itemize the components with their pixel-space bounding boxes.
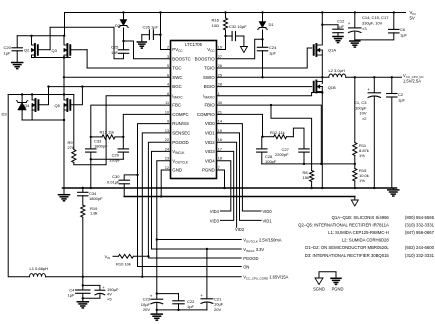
capacitor C21 10uF 20V [206,248,208,250]
svg-text:26: 26 [218,64,222,68]
svg-text:1800pF: 1800pF [94,144,108,149]
svg-text:16: 16 [218,138,222,142]
svg-text:BOOSTC: BOOSTC [172,56,191,61]
svg-text:20V: 20V [143,307,150,312]
svg-text:BOOSTIO: BOOSTIO [195,56,216,61]
svg-text:BGIO: BGIO [204,84,216,89]
svg-text:21: 21 [218,110,222,114]
capacitor C12 1uF [322,24,338,26]
svg-text:6: 6 [167,73,169,77]
capacitor C6 1uF [393,11,395,13]
svg-text:R16: R16 [212,18,220,23]
ground hollow under C32 [240,47,247,53]
capacitor C33 1800pF [86,148,96,150]
svg-text:RUN/SS: RUN/SS [172,121,189,126]
svg-text:1µF: 1µF [269,51,277,56]
svg-text:VID4: VID4 [210,209,220,214]
svg-text:1µF: 1µF [400,33,408,38]
svg-text:D2: D2 [115,23,121,28]
svg-text:7: 7 [218,166,220,170]
svg-text:30: 30 [218,101,222,105]
svg-text:1µF: 1µF [4,51,12,56]
svg-text:1%: 1% [359,178,365,183]
wire BGIO to Q1B gate [217,86,312,88]
wire FBIO to R8 staircase [271,105,312,170]
svg-text:28: 28 [218,83,222,87]
ground under C4 [77,301,88,303]
wire C33 C29 bottoms [91,158,124,160]
svg-text:(602) 244-6600: (602) 244-6600 [405,245,435,250]
svg-text:FBC: FBC [172,103,181,108]
wire IMAXIO [217,93,323,96]
svg-text:VIN: VIN [105,254,111,260]
svg-text:TGIO: TGIO [204,66,215,71]
wire SW node line to L1 and D3 [8,94,64,96]
ground under C26 [137,41,146,43]
svg-text:23: 23 [165,157,169,161]
svg-text:C26 1µF: C26 1µF [143,24,159,29]
svg-text:C32 10µF: C32 10µF [229,24,247,29]
svg-text:VID3: VID3 [205,149,215,154]
wire PGND bus [63,187,397,189]
capacitor bank 150uF 4V x5 [83,284,100,286]
svg-text:13: 13 [165,129,169,133]
svg-text:C1, C3: C1, C3 [354,100,367,105]
op-amp U1 LTC1705 controller IC [171,41,217,179]
svg-text:C6: C6 [400,27,406,32]
wire FB node line [262,163,355,165]
capacitor C22 1uF [156,292,158,294]
svg-text:2: 2 [167,46,169,50]
svg-text:1µF: 1µF [187,304,195,309]
svg-text:L1 0.68µH: L1 0.68µH [30,266,49,271]
svg-text:3: 3 [167,55,169,59]
svg-text:VINCLK 3.3V: VINCLK 3.3V [243,247,264,253]
svg-text:18: 18 [218,157,222,161]
svg-text:(800) 554-5565: (800) 554-5565 [405,215,435,220]
svg-text:330pF: 330pF [109,158,121,163]
wire SWIO [217,76,329,78]
svg-text:19: 19 [218,46,222,50]
wire Q2/Q3 drain rail [17,35,64,37]
svg-text:×3: ×3 [362,26,367,31]
svg-text:100pF: 100pF [265,159,277,164]
resistor R16 10ohm [224,11,226,13]
wire SWC [64,76,171,78]
svg-text:15k: 15k [303,175,309,180]
wire SGND bus [124,196,355,198]
svg-text:20V: 20V [214,307,221,312]
svg-text:COMPIO: COMPIO [197,112,215,117]
wire TGC [87,67,170,69]
svg-text:GND: GND [172,168,182,173]
svg-text:Q2: Q2 [24,48,30,53]
wire FBC [91,105,171,148]
wire VINCLK [152,151,242,249]
ground under C20 [12,62,23,64]
svg-text:D3: INTERNATIONAL RECTIFIER 30: D3: INTERNATIONAL RECTIFIER 30BQ015 [305,253,390,258]
svg-text:SENSEC: SENSEC [172,131,190,136]
wire BOOSTC [124,41,171,59]
capacitor C23 10uF 20V [156,238,158,240]
svg-text:1%: 1% [359,153,365,158]
svg-text:C14, C15, C17: C14, C15, C17 [362,15,389,20]
svg-text:25: 25 [218,73,222,77]
resistor R9 27k [64,95,74,150]
wire gate net upper run [50,26,114,28]
svg-text:9: 9 [167,120,169,124]
svg-text:12: 12 [165,166,169,170]
wire VCC_CPU_CORE output line [46,276,242,278]
wire VID fan [217,124,262,211]
svg-text:COMPC: COMPC [172,112,188,117]
wire VCC pin [217,49,226,51]
wire Q4 gate feed [39,87,48,105]
wire FBIO [217,105,322,164]
capacitor C34 1800pF [82,187,84,189]
svg-text:D3: D3 [2,112,8,117]
wire L1 loop from SW node [8,95,29,277]
svg-text:×5: ×5 [107,296,112,301]
svg-text:(847) 956-0667: (847) 956-0667 [405,230,435,235]
svg-text:D1: D1 [269,22,275,27]
svg-text:R10 10k: R10 10k [116,262,131,267]
svg-text:11: 11 [165,101,169,105]
diode D2 MBR0520L [122,11,124,13]
svg-text:Q1A: Q1A [328,48,336,53]
resistor R15 10.0k [353,169,357,182]
wire Q2 source to SW vertical [32,57,71,59]
ground under C12 [333,36,343,38]
svg-text:0.01µF: 0.01µF [107,179,120,184]
svg-text:SGND: SGND [313,286,325,291]
wire COMPC [123,114,170,136]
svg-text:2200pF: 2200pF [275,152,289,157]
resistor R8 15k [310,171,314,182]
svg-text:Q4: Q4 [24,103,30,108]
svg-text:PGOOD: PGOOD [172,140,188,145]
capacitor C30 0.01uF soft start [124,175,137,180]
svg-text:ON: ON [243,265,249,270]
svg-text:PGND: PGND [202,168,215,173]
svg-text:PGOOD: PGOOD [243,256,258,261]
svg-text:×2: ×2 [362,116,367,121]
wire Q4 Q5 source to PGND [22,119,64,121]
svg-text:1.8k: 1.8k [90,211,98,216]
svg-text:PGND: PGND [332,286,344,291]
svg-text:VOUTCLK 2.5V/150mA: VOUTCLK 2.5V/150mA [243,238,282,244]
capacitor C27 2200pF [293,128,304,148]
wire BOOSTIO [217,39,263,59]
svg-text:1µF: 1µF [68,293,76,298]
wire VIN 5V top bus [65,12,406,14]
ground PGND left [63,188,65,195]
svg-text:(310) 332-3331: (310) 332-3331 [405,222,435,227]
SGND PGND tie symbols [319,272,336,278]
svg-text:Q1B: Q1B [328,85,336,90]
svg-text:R12 11k: R12 11k [270,130,285,135]
wire Q3 gate to TGC [71,49,87,51]
svg-text:C24: C24 [269,45,277,50]
wire RUN/SS [138,124,242,267]
svg-text:Q3: Q3 [52,48,58,53]
svg-text:Q5: Q5 [55,103,61,108]
svg-text:LTC1705: LTC1705 [185,42,203,47]
svg-text:VID2: VID2 [205,140,215,145]
capacitor C14 C15 C17 330uF 10V x3 [354,11,356,13]
svg-text:VID2: VID2 [235,227,245,232]
svg-text:L1: SUMIDA CEP125-R68MC-H: L1: SUMIDA CEP125-R68MC-H [328,230,389,235]
wire PGOOD [148,142,241,258]
svg-text:100µF: 100µF [355,105,367,110]
svg-text:SWC: SWC [172,75,182,80]
svg-text:10Ω: 10Ω [212,23,219,28]
svg-text:24: 24 [165,147,169,151]
svg-text:VID3: VID3 [210,218,220,223]
svg-text:C20: C20 [4,45,12,50]
svg-text:VID0: VID0 [205,121,215,126]
svg-text:5: 5 [167,64,169,68]
svg-text:TGC: TGC [172,66,181,71]
svg-text:+: + [367,87,370,92]
wire BGC [49,86,171,88]
wire PGND pin to PGND bus [217,170,225,188]
svg-text:17: 17 [218,147,222,151]
svg-text:10V: 10V [359,111,366,116]
ground under C14 bank [350,40,360,42]
svg-text:C12: C12 [337,19,345,24]
svg-text:VID1: VID1 [205,131,215,136]
capacitor C1 C3 100uF 10V x2 [373,77,375,92]
capacitor C25 1uF boost [123,41,125,49]
resistor R19 1.8k [81,205,85,217]
svg-text:R13 11k: R13 11k [100,130,115,135]
wire top bus to Q2/Q3 drain rail [64,13,66,36]
wire TGIO to Q1A gate [217,48,312,68]
capacitor C29 330pF [122,137,124,149]
wire Q5 gate feed [71,87,82,105]
wire PVCC [160,13,162,50]
svg-text:Q2–Q5: INTERNATIONAL RECTIFIER: Q2–Q5: INTERNATIONAL RECTIFIER IR7811A [298,222,389,227]
svg-text:(310) 332-3331: (310) 332-3331 [405,253,435,258]
svg-text:VCC_CPU_CORE 1.65V/15A: VCC_CPU_CORE 1.65V/15A [243,274,288,280]
capacitor C26 1uF [159,11,161,13]
svg-text:C30: C30 [112,174,120,179]
svg-text:D1–D2: ON SEMICONDUCTOR MBR052: D1–D2: ON SEMICONDUCTOR MBR0520L [305,245,389,250]
capacitor C2 1uF [391,77,393,93]
capacitor C28 100pF [261,137,263,149]
svg-text:1µF: 1µF [398,98,406,103]
svg-text:27: 27 [218,55,222,59]
ground PGND right [392,188,394,190]
svg-text:330µF, 10V: 330µF, 10V [362,21,383,26]
capacitor C4 1uF [82,277,84,290]
wire GND pin to SGND bus [161,170,170,197]
svg-text:VID4: VID4 [205,158,215,163]
capacitor C24 1uF boost IO [262,39,264,47]
svg-text:+: + [200,293,203,298]
svg-text:4: 4 [167,83,169,87]
svg-text:FBIO: FBIO [204,103,215,108]
svg-text:+: + [150,293,153,298]
svg-text:Q1A–Q1B: SILICONIX Si4966: Q1A–Q1B: SILICONIX Si4966 [332,215,390,220]
svg-text:5V: 5V [410,16,415,21]
svg-text:1µF: 1µF [111,50,119,55]
svg-text:VID0: VID0 [263,209,273,214]
capacitor C20 1uF [16,36,18,48]
wire Q2 gate lead [38,49,50,51]
svg-text:15: 15 [218,129,222,133]
svg-text:L2: SUMIDA CDRH6D28: L2: SUMIDA CDRH6D28 [342,238,390,243]
svg-text:14: 14 [218,120,222,124]
wire VOUTCLK [157,161,241,240]
svg-text:8: 8 [167,92,169,96]
wire C25 bottom [114,27,124,58]
svg-text:1: 1 [218,92,220,96]
svg-text:L2 3.0µH: L2 3.0µH [329,68,345,73]
svg-text:BGC: BGC [172,84,182,89]
ground SGND hollow arrow [354,197,356,201]
svg-text:VID1: VID1 [263,218,273,223]
wire COMPIO [217,114,263,136]
svg-text:SWIO: SWIO [203,75,215,80]
diode D1 MBR0520L [261,11,263,13]
ground under C23 [156,309,158,311]
svg-text:22: 22 [165,138,169,142]
svg-text:27k: 27k [68,145,74,150]
svg-text:+: + [348,21,351,26]
svg-text:1800pF: 1800pF [89,196,103,201]
resistor R11 8.87k [354,77,356,142]
wire C6 to ground point [355,33,394,40]
wire R9 to IMAXC [74,96,171,165]
svg-text:10: 10 [165,110,169,114]
svg-text:1.5V/2.5A: 1.5V/2.5A [403,78,421,83]
svg-text:C2: C2 [398,92,404,97]
svg-text:+: + [102,285,105,290]
wire Q1A drain from VIN bus [321,11,323,13]
svg-text:C25: C25 [111,45,119,50]
wire SENSEC [142,133,170,277]
wire comp network to PGND bus [90,159,92,188]
